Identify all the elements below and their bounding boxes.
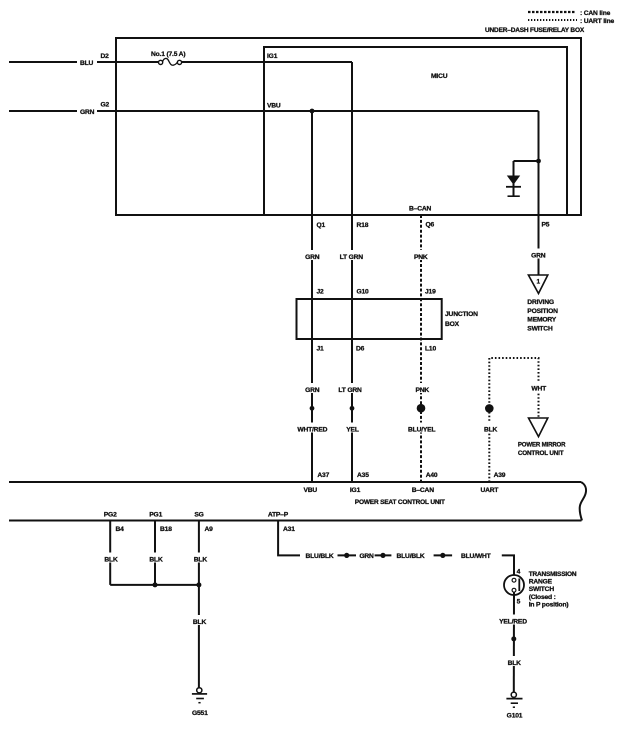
svg-text:L10: L10 <box>425 346 436 353</box>
svg-text:CONTROL UNIT: CONTROL UNIT <box>518 450 565 457</box>
label GRN (Q1 upper) <box>303 250 322 261</box>
svg-text:GRN: GRN <box>80 109 95 116</box>
svg-text:G101: G101 <box>507 713 523 720</box>
svg-text:YEL/RED: YEL/RED <box>499 618 527 625</box>
svg-text:G10: G10 <box>357 289 370 296</box>
svg-text:GRN: GRN <box>359 553 374 560</box>
svg-text:B–CAN: B–CAN <box>409 205 431 212</box>
svg-text:VBU: VBU <box>304 487 318 494</box>
wire R18 vertical <box>351 62 353 482</box>
transmission range switch <box>504 571 577 609</box>
label LT GRN (R18 upper) <box>338 250 365 261</box>
label BLK (UART) <box>481 423 500 434</box>
splice dot R18 <box>350 406 355 411</box>
svg-text:J1: J1 <box>317 346 325 353</box>
ground G101 <box>506 692 522 719</box>
svg-text:UART: UART <box>480 487 499 494</box>
svg-text:: CAN line: : CAN line <box>580 10 611 17</box>
svg-text:A37: A37 <box>317 472 329 479</box>
svg-text:: UART line: : UART line <box>580 18 615 25</box>
label BLK (SG) <box>191 553 210 564</box>
svg-text:5: 5 <box>517 598 521 605</box>
svg-text:BLU: BLU <box>80 60 94 67</box>
svg-text:VBU: VBU <box>267 103 281 110</box>
svg-text:B18: B18 <box>160 526 172 533</box>
label LT GRN (R18 lower) <box>337 383 364 394</box>
svg-text:BLU/YEL: BLU/YEL <box>408 426 435 433</box>
svg-text:GRN: GRN <box>305 254 320 261</box>
svg-text:MEMORY: MEMORY <box>527 317 556 324</box>
wire YEL/RED to ground <box>513 592 515 693</box>
legend UART line <box>528 18 615 25</box>
svg-text:PG2: PG2 <box>104 511 117 518</box>
wire GRN (left feed) <box>9 109 539 116</box>
splice dot PG1/bus <box>153 582 158 587</box>
splice dot YEL/RED-BLK <box>511 636 516 641</box>
svg-text:No.1 (7.5 A): No.1 (7.5 A) <box>151 51 185 58</box>
svg-text:4: 4 <box>517 569 521 576</box>
svg-text:POWER SEAT CONTROL UNIT: POWER SEAT CONTROL UNIT <box>355 499 446 506</box>
wire UART dotted <box>489 358 538 482</box>
svg-text:LT GRN: LT GRN <box>340 254 364 261</box>
svg-text:BLK: BLK <box>484 426 498 433</box>
svg-text:D2: D2 <box>101 53 110 60</box>
svg-text:BLU/BLK: BLU/BLK <box>306 553 334 560</box>
svg-text:IG1: IG1 <box>350 487 361 494</box>
svg-text:R18: R18 <box>357 222 369 229</box>
svg-text:(Closed :: (Closed : <box>529 594 556 601</box>
svg-text:SG: SG <box>194 511 203 518</box>
svg-text:WHT/RED: WHT/RED <box>297 426 327 433</box>
svg-text:BLK: BLK <box>194 556 208 563</box>
svg-text:G2: G2 <box>101 102 110 109</box>
label YEL <box>344 423 362 434</box>
svg-text:WHT: WHT <box>531 386 547 393</box>
svg-text:BLK: BLK <box>193 619 207 626</box>
label GRN (P5) <box>529 249 548 260</box>
svg-text:BLK: BLK <box>508 660 522 667</box>
connector dot B-CAN <box>417 404 426 413</box>
under-dash fuse/relay box <box>116 38 581 215</box>
wire PG1 BLK <box>154 521 156 585</box>
wire Q1 vertical <box>311 111 313 482</box>
inline connector 2 <box>375 553 392 558</box>
svg-text:SWITCH: SWITCH <box>529 586 555 593</box>
power mirror control unit <box>518 418 566 457</box>
splice dot Q1 <box>310 406 315 411</box>
svg-text:A40: A40 <box>426 472 438 479</box>
label WHT/RED <box>295 423 330 434</box>
svg-text:BLK: BLK <box>104 556 118 563</box>
svg-text:1: 1 <box>536 278 540 285</box>
inline connector 1 <box>338 553 357 558</box>
svg-text:YEL: YEL <box>346 426 359 433</box>
svg-text:B–CAN: B–CAN <box>412 487 434 494</box>
svg-text:LT GRN: LT GRN <box>338 387 362 394</box>
svg-text:Q6: Q6 <box>426 222 435 229</box>
svg-text:Q1: Q1 <box>317 222 326 229</box>
wire ATP-P <box>278 521 300 556</box>
wire P5 vertical (VBU down) <box>538 111 540 275</box>
svg-text:G551: G551 <box>192 710 208 717</box>
svg-text:J19: J19 <box>425 289 436 296</box>
svg-text:UNDER–DASH FUSE/RELAY BOX: UNDER–DASH FUSE/RELAY BOX <box>485 27 585 34</box>
svg-text:A39: A39 <box>494 472 506 479</box>
svg-text:RANGE: RANGE <box>529 579 553 586</box>
wire BLU (left feed) <box>9 60 158 67</box>
label PNK (Q6 lower) <box>413 383 432 394</box>
fuse No.1 (7.5 A) <box>151 51 185 65</box>
label BLK (PG1) <box>146 553 165 564</box>
power seat control unit box <box>9 482 586 521</box>
svg-text:BOX: BOX <box>445 321 460 328</box>
svg-text:MICU: MICU <box>431 73 448 80</box>
legend CAN line <box>528 10 611 17</box>
svg-text:POSITION: POSITION <box>527 308 558 315</box>
wire IG1 (fuse to R18 corner) <box>182 61 352 63</box>
inline connector 3 <box>434 553 453 558</box>
svg-text:P5: P5 <box>542 222 550 229</box>
svg-text:PNK: PNK <box>414 254 428 261</box>
svg-text:BLU/WHT: BLU/WHT <box>461 553 492 560</box>
label YEL/RED <box>498 615 529 626</box>
driving position memory switch <box>527 275 558 332</box>
label BLK (PG2) <box>101 553 120 564</box>
svg-text:DRIVING: DRIVING <box>527 299 554 306</box>
svg-text:J2: J2 <box>317 289 325 296</box>
svg-text:SWITCH: SWITCH <box>527 325 553 332</box>
svg-text:A9: A9 <box>205 526 214 533</box>
svg-text:In P position): In P position) <box>529 602 569 609</box>
label PNK (Q6 upper) <box>412 250 431 261</box>
svg-text:BLU/BLK: BLU/BLK <box>397 553 425 560</box>
svg-text:TRANSMISSION: TRANSMISSION <box>529 571 577 578</box>
junction box <box>297 299 479 339</box>
svg-text:A35: A35 <box>357 472 369 479</box>
svg-text:ATP–P: ATP–P <box>268 511 289 518</box>
wire SG BLK <box>198 521 200 688</box>
svg-text:BLK: BLK <box>149 556 163 563</box>
svg-text:D6: D6 <box>356 346 365 353</box>
svg-text:A31: A31 <box>283 526 295 533</box>
label GRN (Q1 lower) <box>303 383 322 394</box>
svg-text:PG1: PG1 <box>149 511 162 518</box>
connector dot UART <box>485 404 494 413</box>
label BLU/YEL <box>406 423 438 434</box>
svg-text:POWER MIRROR: POWER MIRROR <box>518 441 566 448</box>
svg-text:GRN: GRN <box>531 252 546 259</box>
svg-text:JUNCTION: JUNCTION <box>445 311 478 318</box>
label WHT (UART) <box>529 382 548 393</box>
splice dot SG/bus <box>196 582 201 587</box>
svg-text:B4: B4 <box>116 526 125 533</box>
svg-text:GRN: GRN <box>305 387 320 394</box>
MICU box <box>264 47 567 215</box>
label BLK (ground lead) <box>190 615 209 626</box>
svg-text:PNK: PNK <box>416 387 430 394</box>
wire PG2 BLK <box>109 521 111 585</box>
junction node on VBU wire <box>310 109 315 114</box>
wire B-CAN dashed vertical <box>420 215 422 482</box>
ground bus wire <box>110 584 199 586</box>
wire to transmission range switch <box>502 555 514 579</box>
svg-text:IG1: IG1 <box>267 53 278 60</box>
label BLK (G101 lead) <box>505 656 524 667</box>
ground G551 <box>192 688 208 717</box>
diode D (in MICU) <box>506 159 541 197</box>
